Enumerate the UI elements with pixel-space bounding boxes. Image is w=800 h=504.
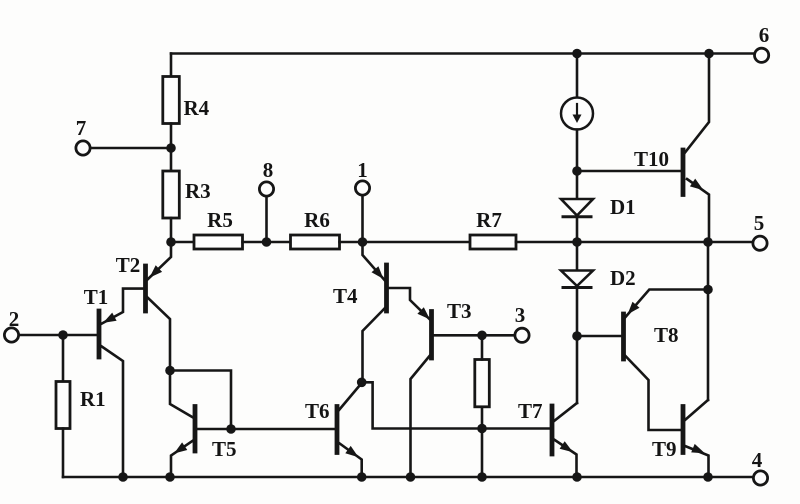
svg-text:T2: T2	[116, 253, 141, 277]
terminal 6	[755, 48, 769, 62]
wire R2 bottom lead	[481, 407, 484, 477]
transistor T7	[550, 406, 555, 454]
node T2 collector junction	[165, 366, 175, 376]
node output bus D-junction	[572, 237, 582, 247]
svg-text:8: 8	[263, 158, 274, 182]
transistor T2	[143, 266, 148, 311]
current source I1	[561, 98, 593, 130]
wire R4 top lead	[170, 54, 173, 77]
node top bus current source junction	[572, 49, 582, 59]
wire R5 to R6	[243, 241, 291, 244]
node ground bus T5 junction	[165, 472, 175, 482]
svg-text:T1: T1	[84, 285, 109, 309]
node ground bus T7 junction	[572, 472, 582, 482]
svg-text:5: 5	[754, 211, 765, 235]
svg-text:T3: T3	[447, 299, 472, 323]
svg-text:R7: R7	[476, 208, 502, 232]
wire R1 bottom lead	[62, 429, 65, 478]
resistor R1	[56, 382, 70, 429]
wire top supply bus	[171, 52, 756, 55]
node ground bus R junction	[477, 472, 487, 482]
wire T10 base	[577, 170, 681, 173]
transistor T1	[97, 311, 102, 357]
wire T6 collector jog to T7 base	[362, 382, 551, 428]
node output bus T10 emitter junction	[703, 237, 713, 247]
transistor T3	[429, 312, 434, 359]
node ground bus T9 junction	[703, 472, 713, 482]
wire R6 to R7	[340, 241, 471, 244]
wire R3 bottom lead	[170, 218, 173, 242]
svg-text:3: 3	[515, 303, 526, 327]
wire R4 to R3 through node	[170, 124, 173, 172]
svg-text:R1: R1	[80, 387, 106, 411]
node pin1 junction	[358, 237, 368, 247]
wire T8 base	[577, 335, 622, 338]
svg-text:T6: T6	[305, 399, 330, 423]
terminal 3	[515, 328, 529, 342]
transistor T9	[681, 407, 686, 453]
resistor R3	[163, 171, 180, 218]
node T4/T6 collector junction	[357, 378, 367, 388]
svg-text:R3: R3	[185, 179, 211, 203]
svg-text:T4: T4	[333, 284, 358, 308]
wire pin 1 vertical	[361, 195, 364, 243]
node T8 base junction	[572, 331, 582, 341]
terminal 2	[4, 328, 18, 342]
svg-text:D1: D1	[610, 195, 636, 219]
node main bus left junction	[166, 237, 176, 247]
resistor R2 unlabeled	[475, 360, 490, 407]
node pin3 resistor bottom junction	[477, 424, 487, 434]
svg-text:D2: D2	[610, 266, 636, 290]
wire terminal 7 lead	[90, 147, 171, 150]
wire R1 top lead	[62, 335, 65, 382]
wire T5 base to T6 base	[197, 428, 335, 431]
wire terminal 2 lead	[19, 334, 97, 337]
terminal 4	[753, 471, 767, 485]
transistor T6	[335, 407, 340, 453]
svg-text:T9: T9	[652, 437, 677, 461]
wire current source top lead	[576, 54, 579, 98]
node R1 top junction	[58, 330, 68, 340]
wire D2 down to T7 collector	[576, 288, 579, 404]
svg-text:7: 7	[76, 116, 87, 140]
terminal 8	[259, 182, 273, 196]
wire pin 8 vertical	[265, 196, 268, 243]
node pin3 junction	[477, 331, 487, 341]
node R4/R3/pin7 junction	[166, 143, 176, 153]
transistor T4	[384, 265, 389, 311]
resistor R6	[291, 235, 340, 249]
wire D1 to D2	[576, 217, 579, 271]
wire current source to D1	[576, 130, 579, 199]
node ground bus T6 junction	[357, 472, 367, 482]
terminal 1	[355, 181, 369, 195]
node T5 base junction	[226, 424, 236, 434]
resistor R4	[163, 77, 180, 124]
transistor T5	[193, 407, 198, 452]
wire T5 collector-base tie	[170, 371, 231, 430]
terminal 5	[753, 236, 767, 250]
wire R7 to terminal 5	[516, 241, 754, 244]
transistor T10	[681, 150, 686, 195]
svg-text:R6: R6	[304, 208, 330, 232]
node pin8 junction	[262, 237, 272, 247]
terminal 7	[76, 141, 90, 155]
resistor R7	[470, 235, 516, 249]
svg-text:1: 1	[357, 158, 368, 182]
svg-text:T7: T7	[518, 399, 543, 423]
node T8 emitter junction	[703, 285, 713, 295]
node top bus T10 collector junction	[704, 49, 714, 59]
node ground bus T3 junction	[406, 472, 416, 482]
wire bus to R5	[171, 241, 194, 244]
diode D1	[561, 199, 593, 216]
svg-text:4: 4	[752, 448, 763, 472]
node T10 base junction	[572, 166, 582, 176]
svg-text:T8: T8	[654, 323, 679, 347]
svg-text:T5: T5	[212, 437, 237, 461]
svg-text:R4: R4	[184, 96, 210, 120]
svg-text:6: 6	[759, 23, 770, 47]
resistor R5	[194, 235, 243, 249]
wire T10 emitter / T9 collector vertical	[707, 242, 710, 400]
wire R2 top lead	[481, 335, 484, 359]
svg-text:T10: T10	[634, 147, 669, 171]
wire bottom ground bus	[63, 476, 754, 479]
svg-text:2: 2	[9, 307, 20, 331]
node ground bus T1 junction	[118, 472, 128, 482]
svg-text:R5: R5	[207, 208, 233, 232]
transistor T8	[621, 314, 626, 359]
diode D2	[561, 271, 593, 287]
